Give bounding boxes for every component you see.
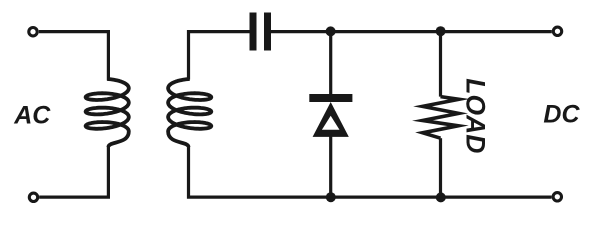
terminal: AC input top [29,28,37,36]
wire: secondary bottom lead and bottom rail to DC- terminal [189,147,552,198]
resistor R1 (load) zigzag [423,97,459,139]
junction: load top node [436,26,446,36]
terminal: DC output top [553,27,561,35]
svg-text:DC: DC [543,101,580,129]
diode D1 cathode bar [309,94,352,102]
terminal: AC input bottom [29,193,37,201]
junction: diode top node [326,26,336,36]
wire: load top lead [439,32,442,97]
wire: diode bottom lead [329,136,332,197]
inductor L1 (transformer primary winding) [86,79,129,147]
capacitor C1 left plate [250,13,257,51]
wire: load bottom lead [439,138,442,197]
wire: top rail from capacitor to DC+ terminal [271,30,552,33]
svg-text:LOAD: LOAD [461,78,491,153]
svg-text:AC: AC [13,101,51,129]
wire: AC top lead to primary [39,32,109,81]
diode D1 triangle [313,102,349,137]
wire: secondary top lead to capacitor [189,32,250,80]
capacitor C1 right plate [264,13,271,51]
terminal: DC output bottom [553,193,561,201]
wire: diode cathode top lead [329,32,332,95]
wire: primary bottom lead to AC bottom terminal [39,147,108,198]
inductor L2 (transformer secondary winding) [168,79,211,147]
junction: diode bottom node [326,192,336,202]
junction: load bottom node [436,192,446,202]
